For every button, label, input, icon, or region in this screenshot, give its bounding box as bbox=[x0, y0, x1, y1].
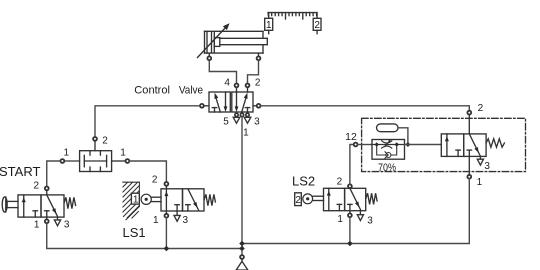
svg-text:3: 3 bbox=[183, 215, 189, 226]
wire AND valve left port to START valve port 2 bbox=[47, 161, 61, 186]
left box flow arrow bbox=[446, 134, 448, 157]
throttle arcs bbox=[382, 141, 392, 143]
control valve right pilot port bbox=[253, 105, 256, 107]
right box: blocked port 3 bbox=[247, 108, 249, 112]
wire flow control to timer valve pilot bbox=[405, 144, 442, 146]
svg-text:2: 2 bbox=[314, 20, 320, 31]
svg-text:1: 1 bbox=[64, 148, 70, 159]
right box blocked port 1 bbox=[349, 204, 351, 210]
svg-text:4: 4 bbox=[224, 78, 230, 89]
svg-text:Control: Control bbox=[134, 85, 170, 97]
wire control valve right pilot to timer valve port 2 bbox=[261, 106, 470, 111]
exhaust port 3 stem and triangle bbox=[57, 217, 59, 220]
timer valve port 1 node bbox=[468, 156, 470, 174]
right box diagonal bbox=[188, 189, 199, 211]
svg-text:70%: 70% bbox=[378, 162, 396, 174]
ruler / distance scale bbox=[268, 13, 317, 19]
svg-text:3: 3 bbox=[484, 161, 490, 172]
left box: path 2->3 bbox=[225, 92, 227, 107]
wire control valve port 1 down to supply junction bbox=[241, 117, 243, 244]
svg-text:2: 2 bbox=[102, 136, 108, 147]
right box blocked port 1 bbox=[46, 211, 48, 217]
svg-text:3: 3 bbox=[64, 220, 70, 231]
push button actuator bbox=[6, 200, 18, 202]
piston bbox=[211, 32, 213, 52]
svg-text:2: 2 bbox=[255, 78, 261, 89]
wire timer valve port 1 to supply line bbox=[242, 179, 469, 244]
check valve bypass bbox=[377, 145, 386, 156]
junction dots on through line bbox=[375, 142, 379, 146]
control valve left pilot port bbox=[205, 105, 209, 107]
wire AND valve right port to LS1 port 2 bbox=[130, 161, 167, 182]
LS2 position marker box 2 bbox=[295, 193, 302, 206]
left box blocked port bbox=[34, 211, 36, 217]
wire LS2 port 1 to supply line bbox=[349, 217, 351, 243]
junction dot center bottom bbox=[239, 246, 245, 252]
left box: blocked port 5 bbox=[214, 108, 216, 112]
svg-text:1: 1 bbox=[120, 148, 126, 159]
left box flow arrow bbox=[165, 189, 167, 211]
svg-text:2: 2 bbox=[478, 103, 484, 114]
supply junction verticals bbox=[241, 244, 243, 249]
right box 2->3 diagonal bbox=[47, 195, 58, 217]
wire control valve left pilot to AND valve top bbox=[95, 106, 200, 137]
wire START port 1 to supply line bbox=[47, 223, 242, 248]
wire cylinder right port to control valve port 2 bbox=[248, 60, 259, 83]
svg-text:1: 1 bbox=[337, 214, 343, 225]
svg-text:START: START bbox=[0, 164, 40, 179]
svg-text:3: 3 bbox=[367, 215, 373, 226]
svg-text:2: 2 bbox=[152, 174, 158, 185]
wire LS1 port 1 to supply line bbox=[165, 218, 167, 249]
right box 2->3 diagonal bbox=[469, 134, 480, 156]
AND valve top port bbox=[94, 141, 96, 151]
svg-text:2: 2 bbox=[34, 181, 40, 192]
spring return bbox=[64, 197, 75, 208]
exhaust 3 triangle bbox=[244, 117, 251, 123]
left box flow arrow bbox=[23, 195, 25, 217]
LS2 roller actuator bbox=[303, 194, 313, 204]
svg-text:1: 1 bbox=[133, 194, 139, 205]
junction dot LS1 bbox=[164, 246, 170, 252]
left box: path 1->4 bbox=[216, 99, 220, 113]
wire reservoir to pilot line bbox=[398, 128, 408, 145]
svg-text:2: 2 bbox=[337, 176, 343, 187]
LS2 port 2 node bbox=[348, 184, 352, 188]
svg-text:Valve: Valve bbox=[179, 85, 203, 97]
LS1 port 2 node bbox=[165, 182, 169, 186]
piston rod bbox=[220, 37, 267, 39]
ruler position marker 2 bbox=[313, 13, 321, 34]
right box: path 1->2 bbox=[242, 99, 246, 113]
svg-text:1: 1 bbox=[266, 20, 272, 31]
cylinder right port bbox=[258, 53, 260, 56]
LS1 roller actuator bbox=[141, 194, 151, 204]
two-pressure (AND) valve bbox=[61, 137, 130, 172]
control valve bottom port nodes bbox=[235, 113, 238, 116]
svg-text:LS1: LS1 bbox=[123, 225, 146, 240]
svg-text:1: 1 bbox=[477, 177, 483, 188]
svg-text:1: 1 bbox=[153, 215, 159, 226]
cylinder left port bbox=[208, 53, 210, 56]
START valve port 1 node bbox=[46, 217, 48, 219]
LS1 position marker box 1 bbox=[131, 193, 139, 204]
right box 2->3 diagonal bbox=[350, 188, 361, 210]
START valve (3/2 push-button) bbox=[2, 195, 75, 226]
svg-text:1: 1 bbox=[243, 128, 249, 139]
control valve port 2 node bbox=[246, 84, 250, 88]
svg-text:1: 1 bbox=[34, 220, 40, 231]
control valve U1 (5/2 way) bbox=[209, 92, 253, 112]
cushion boss bbox=[214, 38, 220, 47]
svg-text:2: 2 bbox=[295, 195, 301, 206]
cushion adjust arrow bbox=[198, 27, 227, 58]
left box flow arrow bbox=[328, 188, 330, 210]
junction reservoir tap bbox=[405, 142, 410, 147]
compressed air supply bbox=[241, 251, 243, 255]
spring return bbox=[204, 194, 215, 205]
timer port 12 node bbox=[354, 143, 358, 147]
spring return bbox=[486, 139, 504, 147]
control valve port 4 node bbox=[235, 84, 239, 88]
LS1 valve (3/2 roller, actuated) bbox=[161, 189, 215, 222]
timer valve port 2 node bbox=[467, 111, 471, 115]
START valve port 2 node bbox=[45, 187, 49, 191]
AND valve left port bbox=[65, 160, 80, 162]
svg-text:3: 3 bbox=[254, 116, 260, 127]
right box blocked port 1 bbox=[468, 150, 470, 156]
exhaust port 3 stem and triangle bbox=[359, 211, 361, 215]
right box: path 4->5 bbox=[236, 92, 238, 107]
wire LS2 port 2 up to timer port 12 bbox=[350, 145, 354, 185]
junction dot center top bbox=[239, 241, 245, 247]
left box blocked port bbox=[338, 204, 340, 210]
LS2 port 1 node bbox=[349, 211, 351, 214]
exhaust 5 triangle bbox=[233, 117, 240, 123]
svg-text:5: 5 bbox=[223, 116, 229, 127]
spring return bbox=[366, 193, 377, 204]
timer 3/2 valve (delay valve) bbox=[441, 134, 504, 165]
LS1 port 1 node bbox=[165, 211, 167, 214]
exhaust port 3 stem and triangle bbox=[479, 156, 481, 159]
cylinder (double-acting, adjustable cushioning) bbox=[198, 23, 268, 60]
LS2 valve (3/2 roller, rest position) bbox=[324, 188, 378, 220]
air reservoir bbox=[377, 124, 399, 132]
AND valve right port bbox=[112, 160, 126, 162]
LS1 actuation wall (hatched) bbox=[123, 182, 140, 220]
junction dot LS2 bbox=[347, 241, 353, 247]
right box blocked port bbox=[187, 205, 189, 211]
left box blocked port bbox=[457, 150, 459, 156]
flow control valve (throttle + check) bbox=[372, 139, 405, 159]
wire cylinder left port to control valve port 4 bbox=[209, 60, 236, 83]
left box blocked port bbox=[176, 205, 178, 211]
ruler position marker 1 bbox=[265, 13, 273, 34]
exhaust port 3 stem and triangle bbox=[176, 211, 178, 215]
timer assembly dash-dot enclosure bbox=[362, 118, 526, 171]
svg-text:LS2: LS2 bbox=[292, 174, 315, 189]
svg-text:12: 12 bbox=[345, 131, 357, 143]
